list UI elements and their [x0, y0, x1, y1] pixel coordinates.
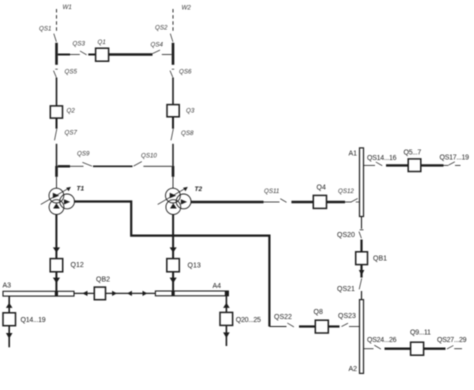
svg-text:QS4: QS4 — [151, 42, 164, 49]
disconnector QS20 — [337, 232, 361, 239]
wire T1 tertiary route (heavy L) — [74, 202, 270, 327]
disconnector QS27...29 — [437, 337, 467, 349]
wire right node to T2 — [172, 177, 174, 189]
svg-text:QS12: QS12 — [338, 188, 354, 195]
disconnector QS8 — [171, 129, 194, 140]
arrow below QB1 — [359, 270, 365, 275]
disconnector QS7 — [55, 129, 78, 140]
svg-text:QS3: QS3 — [73, 41, 86, 48]
svg-text:QS27...29: QS27...29 — [437, 337, 467, 344]
wire Q8 to QS23 (heavy) — [328, 325, 339, 327]
wire top row left stub — [58, 54, 70, 56]
svg-text:QS2: QS2 — [155, 25, 168, 32]
wire QS22 to Q8 (heavy) — [299, 325, 315, 327]
wire Q3 to QS8 — [172, 117, 174, 129]
breaker Q8 — [314, 309, 329, 333]
breaker Q2 — [50, 106, 75, 118]
svg-text:QS1: QS1 — [39, 26, 51, 33]
bus A2 — [349, 300, 364, 374]
wire after QS17 — [444, 164, 449, 166]
disconnector QS17...19 — [440, 154, 470, 165]
svg-text:QB2: QB2 — [96, 277, 110, 284]
wire QS21 to A2 — [361, 291, 363, 300]
svg-text:QS17...19: QS17...19 — [440, 154, 470, 161]
wire QS24 to Q9 (heavy) — [385, 348, 411, 350]
breaker Q20...25 — [220, 312, 261, 325]
wire A3 to QB2 — [74, 292, 94, 294]
svg-text:QS9: QS9 — [77, 151, 90, 158]
wire after QS27 — [454, 348, 462, 350]
junction A4 right end — [225, 291, 228, 296]
svg-text:Q3: Q3 — [186, 108, 195, 115]
wire A1 feeder thin — [364, 164, 376, 166]
svg-text:QS10: QS10 — [141, 153, 157, 160]
disconnector QS12 — [338, 188, 360, 202]
svg-text:A1: A1 — [349, 151, 358, 158]
wire thin to QS9 — [70, 165, 84, 167]
disconnector QS6 — [170, 69, 192, 78]
arrow down feeder A4 — [223, 332, 230, 338]
node W2 incoming line (dashed) — [172, 9, 174, 33]
wire QS10 to right node — [143, 165, 171, 167]
wire QS9 to QS10 — [93, 165, 133, 167]
wire Q5 to QS17 (heavy) — [421, 164, 444, 166]
arrow right of QB2 — [112, 291, 117, 296]
wire QS11 to Q4 (heavy) — [291, 201, 313, 203]
wire right column QS6 to Q3 — [172, 78, 174, 105]
wire A3 feeder down — [8, 296, 10, 313]
arrow above Q12 — [53, 247, 60, 252]
disconnector QS23 — [338, 313, 356, 327]
svg-text:QS23: QS23 — [338, 313, 356, 320]
breaker Q9...11 — [410, 330, 431, 356]
wire QB2 to A4 — [106, 292, 156, 294]
breaker Q1 — [96, 39, 109, 61]
arrow below Q12 — [53, 278, 60, 284]
svg-text:Q8: Q8 — [314, 309, 323, 316]
junction Q12 on A3 — [55, 291, 58, 296]
disconnector QS10 — [134, 153, 158, 167]
svg-text:QS7: QS7 — [65, 130, 78, 137]
disconnector QS5 — [54, 69, 78, 78]
svg-text:Q14...19: Q14...19 — [21, 317, 46, 324]
wire T2 tertiary to QS11 (heavy) — [191, 201, 264, 203]
svg-text:Q9...11: Q9...11 — [410, 330, 431, 337]
svg-text:Q20...25: Q20...25 — [236, 317, 261, 324]
breaker QB2 — [94, 277, 110, 300]
breaker QB1 — [356, 252, 387, 265]
wire A4 feeder down — [225, 296, 227, 313]
svg-text:QS24...26: QS24...26 — [367, 337, 397, 344]
wire QS14 to Q5 (heavy) — [386, 164, 408, 166]
svg-text:T2: T2 — [195, 186, 203, 193]
wire QS20 to QB1 (heavy) — [360, 240, 362, 252]
arrow down feeder A3 — [6, 333, 13, 339]
breaker Q12 — [50, 259, 84, 272]
bus A4 — [155, 283, 228, 296]
svg-text:QB1: QB1 — [373, 255, 387, 262]
disconnector QS2 — [155, 25, 173, 42]
wire QS8 to right lower node — [172, 144, 174, 166]
wire thin to QS3 — [70, 54, 80, 56]
disconnector QS22 — [274, 314, 294, 327]
svg-text:T1: T1 — [77, 186, 85, 193]
disconnector QS11 — [264, 188, 287, 202]
wire left node to T1 — [56, 177, 58, 189]
svg-text:QS11: QS11 — [264, 188, 279, 195]
disconnector QS9 — [77, 151, 92, 167]
arrow mid tie right — [143, 291, 148, 296]
breaker Q5...7 — [404, 150, 422, 172]
breaker Q13 — [167, 259, 201, 272]
node bar right lower junction — [172, 166, 175, 177]
wire lower row left stub — [58, 165, 70, 167]
svg-text:Q13: Q13 — [188, 263, 201, 270]
wire QS23 to A2 — [349, 326, 360, 328]
transformer T2 — [158, 186, 203, 215]
wire QS3 to Q1 — [88, 54, 95, 56]
arrow left of QB2 — [82, 291, 87, 296]
svg-text:A2: A2 — [349, 366, 358, 373]
breaker Q14...19 — [3, 313, 46, 326]
wire Q4 to QS12 (heavy) — [327, 201, 346, 203]
disconnector QS4 — [151, 42, 164, 54]
wire Q2 to QS7 — [56, 118, 58, 129]
node bar left top junction — [55, 43, 58, 65]
svg-text:Q2: Q2 — [67, 108, 76, 115]
wire T2 to Q13 — [172, 214, 174, 259]
breaker Q4 — [313, 185, 326, 209]
svg-text:Q1: Q1 — [98, 39, 106, 46]
node bar left lower junction — [55, 166, 58, 177]
wire T1 to Q12 — [55, 214, 57, 259]
bus A1 — [349, 148, 364, 217]
disconnector QS21 — [337, 278, 362, 293]
wire Q1 to QS4 (heavy) — [109, 53, 153, 56]
wire A1 bottom to QS20 — [361, 217, 363, 229]
wire thin before QS11 — [264, 201, 280, 203]
disconnector QS3 — [73, 41, 87, 55]
breaker Q3 — [167, 105, 195, 117]
svg-text:QS22: QS22 — [274, 314, 292, 321]
wire below Q20...25 — [225, 325, 227, 346]
disconnector QS14...16 — [367, 155, 397, 166]
wire QS4 to right node — [162, 54, 172, 56]
wire A2 feeder thin — [364, 348, 374, 350]
disconnector QS1 — [39, 26, 56, 42]
wire Q13 to bus A4 — [172, 272, 174, 291]
node W1 incoming line (dashed) — [56, 9, 58, 33]
svg-text:Q12: Q12 — [71, 262, 84, 269]
disconnector QS24...26 — [367, 337, 397, 349]
junction Q13 on A4 — [172, 291, 175, 296]
arrow up to A4 — [223, 303, 230, 308]
arrow mid tie left — [127, 291, 132, 296]
wire thin before QS12 — [345, 201, 352, 203]
wire left column QS5 to Q2 — [56, 78, 58, 106]
svg-text:QS20: QS20 — [337, 232, 355, 239]
svg-text:QS8: QS8 — [181, 130, 194, 137]
node bar right top junction — [172, 43, 175, 65]
svg-text:QS14...16: QS14...16 — [367, 155, 397, 162]
svg-text:W2: W2 — [182, 5, 192, 12]
arrow up to A3 — [6, 303, 13, 308]
wire QB1 down (heavy) — [360, 265, 362, 278]
bus A3 — [3, 283, 75, 297]
arrow below Q13 — [170, 278, 177, 284]
arrow above Q13 — [170, 247, 177, 252]
svg-text:A3: A3 — [3, 283, 12, 290]
svg-text:A4: A4 — [213, 283, 222, 290]
svg-text:Q4: Q4 — [317, 185, 326, 192]
transformer T1 — [41, 186, 85, 215]
svg-text:QS5: QS5 — [65, 69, 78, 76]
wire QS7 to left lower node — [56, 144, 58, 166]
wire Q9 to QS27 (heavy) — [424, 348, 446, 350]
svg-text:Q5...7: Q5...7 — [404, 150, 422, 157]
svg-text:W1: W1 — [63, 4, 72, 11]
svg-text:QS21: QS21 — [337, 286, 355, 293]
wire below Q14...19 — [8, 326, 10, 348]
svg-text:QS6: QS6 — [179, 69, 192, 76]
wire Q12 to bus A3 — [55, 272, 57, 292]
wire corner to QS22 — [269, 326, 286, 328]
